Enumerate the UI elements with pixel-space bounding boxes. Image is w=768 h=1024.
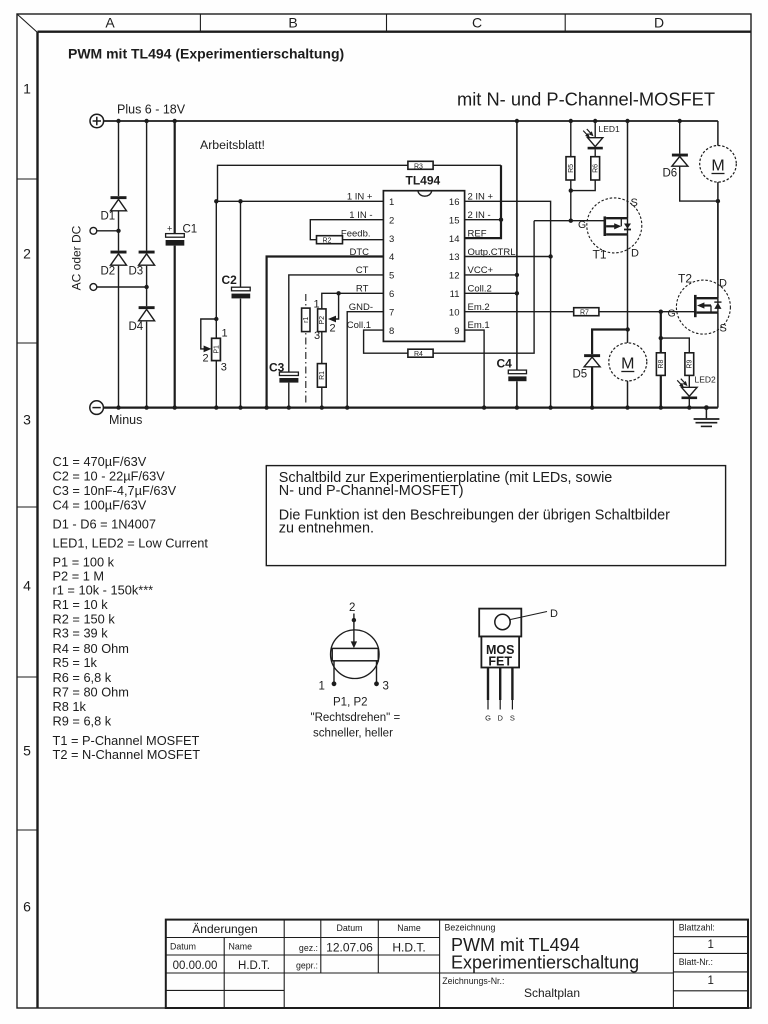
svg-text:Plus 6 - 18V: Plus 6 - 18V	[117, 103, 186, 117]
svg-text:R3: R3	[414, 163, 423, 170]
resistor R3	[408, 161, 433, 170]
wire T1 gate line	[534, 220, 604, 222]
svg-text:R5: R5	[568, 164, 575, 173]
svg-text:3: 3	[221, 361, 227, 373]
diode D2	[101, 251, 127, 278]
svg-text:00.00.00: 00.00.00	[173, 960, 218, 972]
wire C2 branch vertical	[240, 201, 242, 407]
wire VCC vertical from top rail through C4 to minus rail	[516, 121, 518, 408]
wire GND- (pin 7)	[347, 312, 383, 408]
svg-text:R1: R1	[319, 371, 326, 380]
svg-text:G: G	[578, 219, 586, 231]
motor M top right	[700, 121, 737, 280]
wire T2 drain vertical	[717, 201, 719, 298]
svg-text:C: C	[472, 15, 482, 31]
svg-text:7: 7	[389, 307, 394, 318]
svg-text:10: 10	[449, 307, 460, 318]
wire CT (pin 5) down to C3	[289, 275, 384, 408]
motor M bottom	[609, 343, 647, 410]
resistor R1	[317, 364, 326, 388]
svg-text:Name: Name	[397, 923, 421, 933]
svg-text:C4: C4	[497, 357, 513, 371]
svg-text:R2 = 150 k: R2 = 150 k	[53, 612, 116, 627]
pin labels right	[468, 192, 516, 332]
svg-text:D5: D5	[573, 369, 588, 381]
svg-text:R8 1k: R8 1k	[53, 699, 87, 714]
svg-text:C3: C3	[269, 361, 285, 375]
ground	[694, 408, 720, 427]
svg-text:1: 1	[707, 939, 713, 951]
wire T1 source vertical	[627, 121, 629, 218]
node AC2-D3 junction	[144, 285, 148, 289]
svg-text:S: S	[631, 197, 638, 209]
svg-text:D: D	[631, 248, 639, 260]
pin labels left	[341, 192, 373, 332]
svg-text:2: 2	[389, 215, 394, 226]
pin numbers left 1-8	[389, 197, 394, 337]
capacitor C2	[222, 273, 251, 298]
AC terminal 1	[90, 227, 119, 234]
transistor T1 P-channel MOSFET	[578, 197, 642, 262]
svg-text:9: 9	[454, 326, 459, 337]
svg-text:Experimentierschaltung: Experimentierschaltung	[451, 953, 639, 973]
svg-text:D: D	[497, 714, 503, 723]
svg-text:P1, P2: P1, P2	[333, 697, 368, 709]
svg-text:Zeichnungs-Nr.:: Zeichnungs-Nr.:	[442, 976, 504, 986]
svg-text:T1: T1	[593, 248, 607, 262]
svg-text:Bezeichnung: Bezeichnung	[445, 923, 496, 933]
svg-text:R7: R7	[580, 310, 589, 317]
svg-text:zu entnehmen.: zu entnehmen.	[279, 521, 374, 537]
svg-text:R5 = 1k: R5 = 1k	[53, 655, 98, 670]
centerline r1 dash-dot	[305, 294, 307, 403]
potentiometer P1	[203, 327, 228, 373]
svg-text:12: 12	[449, 271, 460, 282]
svg-text:P1: P1	[213, 345, 220, 354]
wire D1 branch vertical	[118, 121, 120, 408]
plus terminal	[90, 114, 104, 128]
svg-text:2: 2	[203, 352, 209, 364]
wire Em.1 (pin 9) down to rail	[465, 330, 485, 408]
svg-text:B: B	[288, 15, 297, 31]
svg-text:PWM mit TL494 (Experimentiersc: PWM mit TL494 (Experimentierschaltung)	[68, 46, 344, 62]
svg-text:12.07.06: 12.07.06	[326, 941, 373, 955]
wire bottom rail	[103, 407, 718, 409]
resistor R6	[591, 157, 600, 180]
svg-text:AC oder DC: AC oder DC	[70, 225, 84, 290]
svg-text:D3: D3	[129, 266, 144, 278]
wire R5 branch	[570, 121, 572, 221]
AC terminal 2	[90, 284, 147, 291]
svg-text:r1: r1	[303, 317, 310, 323]
svg-text:G: G	[485, 714, 491, 723]
wire T2 source to rail corner	[717, 313, 719, 408]
svg-text:C1 = 470µF/63V: C1 = 470µF/63V	[53, 454, 147, 469]
svg-text:Minus: Minus	[109, 413, 142, 427]
svg-text:M: M	[711, 158, 724, 175]
diode D1	[101, 196, 127, 222]
svg-text:3: 3	[389, 234, 394, 245]
potentiometer P2	[314, 298, 336, 342]
svg-text:Schaltplan: Schaltplan	[524, 986, 580, 1000]
svg-text:D1: D1	[101, 211, 116, 223]
wire P2 wiper loop	[331, 293, 339, 319]
wire T1 drain vertical	[627, 234, 629, 343]
svg-text:mit N- und P-Channel-MOSFET: mit N- und P-Channel-MOSFET	[457, 89, 715, 110]
svg-text:Datum: Datum	[337, 923, 363, 933]
resistor R4	[408, 349, 433, 358]
resistor R2	[317, 236, 343, 245]
wire P1 branch vertical	[215, 201, 217, 407]
wire R3 top loop	[218, 165, 502, 201]
svg-text:R9 = 6,8 k: R9 = 6,8 k	[53, 714, 112, 729]
svg-text:Name: Name	[229, 942, 253, 952]
svg-text:D: D	[719, 278, 727, 290]
svg-text:D6: D6	[663, 168, 678, 180]
svg-text:D: D	[550, 608, 558, 620]
wire R8 vertical	[660, 312, 662, 408]
resistor r1	[302, 308, 311, 332]
svg-text:2: 2	[23, 246, 31, 262]
svg-text:D: D	[654, 15, 664, 31]
wire DTC (pin 4) down to minus rail	[267, 257, 384, 408]
svg-text:2: 2	[349, 602, 355, 614]
wire top rail	[104, 120, 718, 122]
capacitor C3	[269, 361, 298, 383]
node T2 gate junction	[659, 310, 663, 314]
svg-text:1: 1	[707, 975, 713, 987]
svg-text:11: 11	[450, 289, 460, 300]
svg-text:R1 = 10 k: R1 = 10 k	[53, 597, 109, 612]
svg-text:H.D.T.: H.D.T.	[238, 960, 270, 972]
wire Coll.2 (pin 11)	[465, 292, 517, 294]
wire LED1/R6 branch	[571, 121, 595, 191]
svg-text:4: 4	[23, 578, 31, 594]
svg-text:R6 = 6,8 k: R6 = 6,8 k	[53, 670, 112, 685]
svg-text:gepr.:: gepr.:	[296, 961, 318, 971]
svg-text:+: +	[167, 224, 172, 234]
svg-text:Blattzahl:: Blattzahl:	[679, 923, 715, 933]
wire Outp.CTRL (pin 13)	[465, 256, 551, 258]
svg-text:LED1: LED1	[599, 124, 621, 134]
svg-text:T1 = P-Channel MOSFET: T1 = P-Channel MOSFET	[53, 733, 200, 748]
transistor T2 N-channel MOSFET	[668, 272, 731, 335]
op-amp U1 TL494 body	[383, 174, 464, 342]
svg-text:r1 = 10k - 150k***: r1 = 10k - 150k***	[53, 583, 154, 598]
svg-text:14: 14	[449, 234, 460, 245]
svg-text:FET: FET	[488, 655, 512, 669]
resistor R9	[685, 353, 694, 376]
svg-text:3: 3	[314, 330, 320, 342]
svg-text:C4 = 100µF/63V: C4 = 100µF/63V	[53, 497, 147, 512]
svg-text:1: 1	[389, 197, 394, 208]
svg-text:3: 3	[23, 412, 31, 428]
capacitor C4	[497, 357, 527, 382]
svg-text:P2: P2	[319, 316, 326, 325]
wire Coll.1 (pin 8) U-loop to R4	[364, 221, 534, 354]
diode D6	[663, 119, 718, 201]
wire P1 wiper loop	[201, 319, 217, 349]
svg-text:Datum: Datum	[170, 942, 196, 952]
svg-text:S: S	[720, 323, 727, 335]
svg-text:S: S	[510, 714, 515, 723]
svg-text:1: 1	[314, 298, 320, 310]
svg-text:Feedb.: Feedb.	[341, 229, 371, 240]
svg-text:R2: R2	[323, 238, 332, 245]
svg-text:13: 13	[449, 252, 460, 263]
wire Em.2 (pin 10) through R7 to T2 gate	[465, 311, 695, 313]
svg-text:2: 2	[330, 323, 336, 335]
minus terminal	[90, 401, 104, 415]
svg-text:R8: R8	[658, 360, 665, 369]
diode D3	[129, 251, 155, 278]
wire D3 branch vertical	[146, 121, 148, 408]
wire RT (pin 6)	[322, 293, 384, 407]
svg-text:R4 = 80 Ohm: R4 = 80 Ohm	[53, 641, 129, 656]
svg-text:N- und P-Channel-MOSFET): N- und P-Channel-MOSFET)	[279, 483, 464, 499]
svg-text:C1: C1	[183, 224, 198, 236]
LED1	[583, 124, 620, 149]
svg-text:R3 = 39 k: R3 = 39 k	[53, 626, 109, 641]
svg-text:D1 - D6 = 1N4007: D1 - D6 = 1N4007	[53, 517, 157, 532]
node top rail junctions	[116, 119, 177, 123]
svg-text:Änderungen: Änderungen	[192, 922, 257, 936]
node pin1 junctions	[214, 199, 218, 203]
wire D5 branch	[592, 330, 628, 408]
svg-text:1: 1	[319, 681, 325, 693]
svg-text:Blatt-Nr.:: Blatt-Nr.:	[679, 957, 713, 967]
svg-text:1: 1	[23, 81, 31, 97]
svg-text:P1 = 100 k: P1 = 100 k	[53, 555, 115, 570]
node D1-D2 junction	[116, 229, 120, 233]
svg-text:gez.:: gez.:	[299, 943, 318, 953]
svg-text:1: 1	[222, 327, 228, 339]
svg-text:6: 6	[23, 899, 31, 915]
LED2	[677, 375, 716, 400]
svg-text:R6: R6	[593, 164, 600, 173]
wire C1 vertical	[174, 121, 176, 408]
svg-text:15: 15	[449, 215, 460, 226]
svg-text:D4: D4	[129, 321, 144, 333]
wire 1 IN + (pin 1)	[215, 200, 384, 202]
svg-text:P2 = 1 M: P2 = 1 M	[53, 569, 105, 584]
svg-text:16: 16	[449, 197, 460, 208]
wire 1 IN - (pin 2) loop to feedback	[310, 220, 383, 240]
svg-text:G: G	[668, 308, 676, 320]
svg-text:H.D.T.: H.D.T.	[392, 941, 425, 955]
svg-text:6: 6	[389, 289, 394, 300]
svg-text:A: A	[105, 15, 115, 31]
svg-text:"Rechtsdrehen" =: "Rechtsdrehen" =	[311, 712, 401, 724]
resistor R8	[656, 353, 665, 376]
wire VCC+ (pin 12)	[465, 274, 517, 276]
wire R9 branch	[661, 338, 690, 408]
svg-text:TL494: TL494	[406, 174, 441, 188]
wire REF (pin 14) up to R3	[465, 165, 501, 238]
svg-text:R7 = 80 Ohm: R7 = 80 Ohm	[53, 685, 129, 700]
svg-text:M: M	[621, 356, 634, 373]
svg-text:5: 5	[389, 271, 394, 282]
svg-text:4: 4	[389, 252, 394, 263]
svg-text:C2 = 10 - 22µF/63V: C2 = 10 - 22µF/63V	[53, 468, 166, 483]
pin numbers right 16-9	[449, 197, 460, 337]
capacitor C1	[166, 224, 198, 246]
wire 2IN+ (pin 16) to Outp.CTRL vertical down to rail	[465, 201, 551, 407]
wire 2IN- (pin 15)	[465, 219, 501, 221]
svg-text:R4: R4	[414, 351, 423, 358]
resistor R5	[566, 157, 575, 180]
svg-text:5: 5	[23, 743, 31, 759]
svg-text:Arbeitsblatt!: Arbeitsblatt!	[200, 138, 265, 152]
svg-text:3: 3	[383, 681, 389, 693]
svg-text:R9: R9	[687, 360, 694, 369]
svg-text:C2: C2	[222, 273, 238, 287]
diode D5	[573, 354, 601, 380]
node bottom rail junctions left	[116, 405, 177, 409]
diode D4	[129, 306, 155, 333]
svg-text:schneller, heller: schneller, heller	[313, 728, 393, 740]
svg-text:T2: T2	[678, 272, 692, 286]
svg-text:D2: D2	[101, 266, 116, 278]
resistor R7	[574, 308, 599, 317]
svg-text:C3 = 10nF-4,7µF/63V: C3 = 10nF-4,7µF/63V	[53, 483, 177, 498]
svg-text:T2 = N-Channel MOSFET: T2 = N-Channel MOSFET	[53, 747, 201, 762]
svg-text:LED2: LED2	[695, 375, 717, 385]
svg-text:8: 8	[389, 326, 394, 337]
svg-text:LED1, LED2 = Low Current: LED1, LED2 = Low Current	[53, 536, 209, 551]
